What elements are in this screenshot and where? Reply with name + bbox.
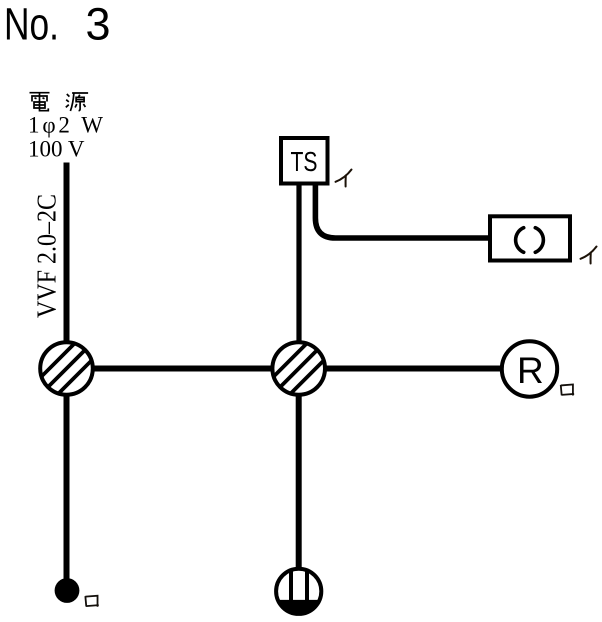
svg-text:R: R [517,350,544,391]
wire: horizontal bus left junction to middle junction to lamp receptacle R [67,366,507,372]
junction box J1 (left hatched circle) [36,338,97,399]
wire: TS left lead down to middle junction [296,185,301,345]
label katakana ro beside R [561,384,574,396]
wire: middle junction down to outlet symbol [296,369,302,579]
label katakana i beside ceiling rose [581,247,597,264]
junction box J2 (middle hatched circle) [268,338,329,399]
wire: left junction down to switch ro [64,369,70,586]
svg-text:100 V: 100 V [28,136,85,161]
svg-text:No.: No. [4,0,59,49]
power source label: kanji DEN (electric) [30,93,50,111]
power source label: kanji GEN (source) [66,93,88,111]
label katakana ro beside switch [85,595,98,607]
svg-text:3: 3 [86,0,111,49]
wire: TS right lead curving to ceiling rose [315,185,490,238]
outlet symbol (circle, vertical bars, filled bottom segment) [276,566,322,615]
svg-text:1φ2 W: 1φ2 W [28,113,103,138]
timer switch TS box [281,138,328,184]
ceiling rose (kakugata hikkake sealing) box [490,216,570,260]
lamp receptacle R [502,341,557,396]
wire: power feed vertical into left junction [64,163,70,369]
svg-text:VVF 2.0–2C: VVF 2.0–2C [32,194,62,318]
svg-text:TS: TS [291,146,318,177]
switch ro (filled circle) [55,578,80,603]
label katakana i beside TS [336,170,352,187]
